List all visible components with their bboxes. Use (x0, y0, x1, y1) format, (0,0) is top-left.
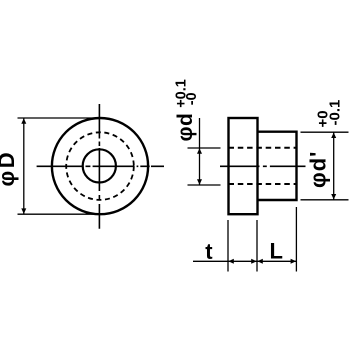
dimension phid extension line top (188, 147, 221, 149)
front view horizontal center line (37, 165, 164, 167)
dimension phiD extension line bottom (18, 213, 101, 215)
svg-text:L: L (270, 238, 283, 263)
dimension phid2 arrow up (331, 133, 336, 139)
side view center line (220, 165, 306, 167)
front view outer circle (flange OD) (52, 118, 148, 214)
dimension phiD extension line top (18, 117, 101, 119)
dimension t extension line left (227, 220, 229, 272)
svg-text:-0: -0 (184, 92, 200, 105)
dimension phiD arrow up (21, 118, 26, 124)
side view bore hidden line top (229, 147, 297, 149)
dimension phid2 dimension line (333, 132, 335, 200)
svg-text:-0.1: -0.1 (327, 100, 344, 126)
svg-text:φd: φd (174, 113, 197, 142)
dimension phid dimension line (199, 118, 201, 185)
front view hidden circle (body OD, dashed) (66, 132, 134, 200)
dimension phid2 extension line bottom (301, 199, 349, 201)
dimension phid arrow up (197, 148, 202, 154)
front view bore circle (83, 149, 116, 182)
svg-text:φd': φd' (306, 151, 331, 188)
dimension phid2 extension line top (301, 131, 349, 133)
dimension phid2 arrow down (331, 194, 336, 200)
label phid2 tolerance (315, 100, 344, 128)
dimension L arrow left (257, 259, 263, 264)
dimension t arrow right (251, 259, 257, 264)
dimension L extension line right (295, 207, 297, 272)
svg-text:φD: φD (0, 150, 19, 187)
dimension phid arrow down (197, 179, 202, 185)
dimension L arrow right (291, 259, 297, 264)
dimension phiD dimension line (23, 118, 25, 214)
side view flange rectangle (229, 118, 258, 214)
dimension t and L dimension line (193, 260, 296, 262)
front view vertical center line (98, 104, 100, 229)
side view bore hidden line bottom (229, 183, 297, 185)
svg-text:t: t (205, 239, 213, 264)
dimension phiD arrow down (21, 208, 26, 214)
side view body outline (258, 132, 297, 200)
dimension t extension line middle (256, 220, 258, 272)
label phid tolerance (173, 79, 200, 108)
dimension t arrow left (228, 259, 234, 264)
dimension phid extension line bottom (188, 184, 221, 186)
